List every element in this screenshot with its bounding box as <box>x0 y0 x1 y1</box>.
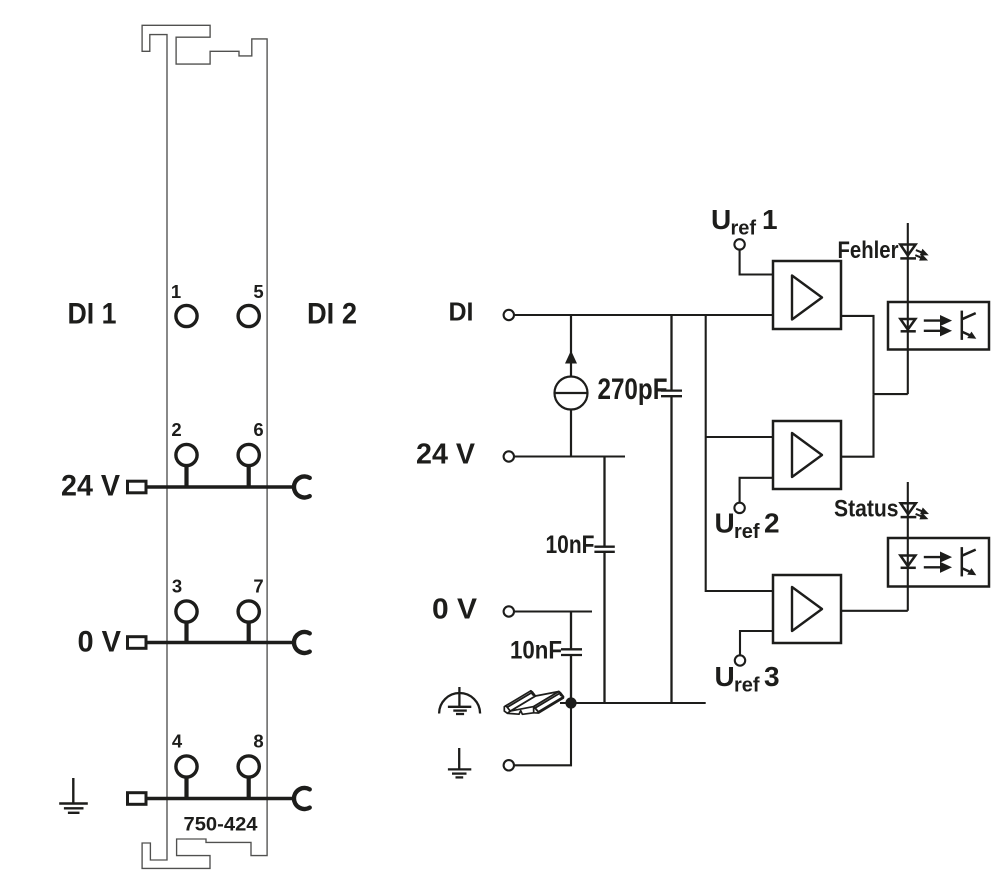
svg-text:24 V: 24 V <box>416 439 476 471</box>
svg-text:U: U <box>715 661 735 692</box>
svg-text:0 V: 0 V <box>78 626 122 659</box>
0V bus connector lug <box>128 637 147 649</box>
svg-text:24 V: 24 V <box>61 470 120 503</box>
terminal DI <box>504 310 514 320</box>
LED Status <box>901 503 917 517</box>
module outline 750-424 housing <box>142 25 267 868</box>
optocoupler 2 LED <box>900 556 915 568</box>
wire line B (DI to comparators 2,3) <box>706 315 773 591</box>
current source (circle with chord and arrow) <box>555 315 588 457</box>
optocoupler 2 coupling arrows <box>924 553 949 571</box>
svg-text:3: 3 <box>172 576 182 597</box>
terminal earth <box>504 760 514 770</box>
capacitor 270pF (on line A) <box>661 315 682 703</box>
terminal Uref3 <box>735 655 745 665</box>
24V bus hook contact <box>294 477 310 498</box>
capacitor 10nF upper (24V to ground bus) <box>594 457 614 704</box>
comparator U1 box <box>773 261 841 329</box>
earth bus hook contact <box>294 788 310 809</box>
contact 1 <box>171 281 197 327</box>
optocoupler 2 box <box>888 538 989 587</box>
label Uref 2 <box>715 508 780 544</box>
chassis/noiseless earth symbol <box>439 687 480 714</box>
svg-text:8: 8 <box>253 731 263 752</box>
wire Uref2 to comparator 2 <box>740 478 773 503</box>
ground symbol (module earth row) <box>59 778 88 813</box>
svg-text:U: U <box>715 508 735 539</box>
svg-text:2: 2 <box>171 419 181 440</box>
0V bus bar <box>145 641 296 644</box>
earth ground symbol (schematic) <box>448 748 471 777</box>
wire comparator3 output <box>841 610 908 612</box>
optocoupler 1 phototransistor <box>962 311 976 340</box>
DIN rail symbol <box>504 691 563 715</box>
contact 4 <box>172 731 197 799</box>
svg-text:270pF: 270pF <box>598 373 668 406</box>
svg-text:ref: ref <box>734 675 760 697</box>
earth bus bar <box>145 797 296 800</box>
svg-text:1: 1 <box>762 204 778 235</box>
LED Status emission arrows <box>916 509 927 519</box>
svg-text:6: 6 <box>253 419 263 440</box>
wire tap to comparator 2 <box>706 436 773 438</box>
svg-text:10nF: 10nF <box>510 637 562 665</box>
comparator U1 triangle <box>792 276 822 320</box>
earth bus connector lug <box>128 793 147 805</box>
LEFT-MODULE <box>59 25 357 868</box>
comparator U3 triangle <box>792 587 822 631</box>
capacitor 10nF lower (0V to ground bus) <box>561 612 582 704</box>
svg-text:DI 2: DI 2 <box>307 298 357 331</box>
optocoupler 1 LED line through box <box>907 302 909 350</box>
svg-text:10nF: 10nF <box>546 531 595 559</box>
24V bus bar <box>145 485 296 488</box>
svg-text:0 V: 0 V <box>432 594 478 626</box>
LED Fehler emission arrows <box>915 250 926 260</box>
terminal Uref2 <box>734 503 744 513</box>
RIGHT-SCHEMATIC <box>416 204 989 777</box>
terminal 24V <box>504 451 514 461</box>
svg-text:7: 7 <box>253 576 263 597</box>
optocoupler 1 box <box>888 302 989 350</box>
current source arrow head <box>565 351 577 364</box>
wire error node to LED chain <box>874 393 908 395</box>
optocoupler 2 LED line through box <box>907 538 909 587</box>
svg-text:4: 4 <box>172 731 183 752</box>
wire comparator2 output <box>841 394 874 457</box>
LED Fehler <box>900 245 916 259</box>
svg-text:750-424: 750-424 <box>184 815 258 836</box>
wire Uref3 to comparator 3 <box>740 631 773 655</box>
contact 7 <box>238 576 264 643</box>
contact 8 <box>238 731 264 799</box>
label Uref 3 <box>715 661 780 697</box>
contact 3 <box>172 576 197 643</box>
wire 24V line <box>514 455 625 457</box>
wire DI line <box>514 314 773 316</box>
0V bus hook contact <box>294 632 310 653</box>
svg-text:DI 1: DI 1 <box>68 298 117 331</box>
optocoupler 1 coupling arrows <box>924 317 949 335</box>
optocoupler 1 LED <box>900 319 915 331</box>
wire earth line <box>514 708 571 765</box>
svg-text:2: 2 <box>764 508 780 539</box>
wire 0V line <box>514 610 592 612</box>
contact 6 <box>238 419 264 487</box>
label Uref 1 <box>711 204 778 240</box>
svg-text:ref: ref <box>731 218 757 240</box>
terminal 0V <box>504 606 514 616</box>
comparator U2 box <box>773 421 841 489</box>
svg-text:Fehler: Fehler <box>838 237 899 264</box>
wire Fehler LED chain vertical <box>907 223 909 394</box>
svg-text:3: 3 <box>764 661 780 692</box>
terminal Uref1 <box>734 239 744 249</box>
wire Uref1 to comparator 1 <box>740 250 773 275</box>
ground bus wire <box>560 702 706 704</box>
svg-text:5: 5 <box>253 281 263 302</box>
optocoupler 2 phototransistor <box>962 547 976 576</box>
contact 5 <box>238 281 264 327</box>
svg-text:1: 1 <box>171 281 181 302</box>
svg-text:ref: ref <box>734 521 760 543</box>
svg-text:DI: DI <box>449 297 474 327</box>
comparator U2 triangle <box>792 433 822 477</box>
comparator U3 box <box>773 575 841 643</box>
svg-text:Status: Status <box>834 495 899 522</box>
contact 2 <box>171 419 197 487</box>
junction dot <box>565 697 576 708</box>
24V bus connector lug <box>128 481 147 493</box>
wire comparator1 output <box>841 316 874 394</box>
wire Status LED chain vertical <box>907 482 909 611</box>
svg-text:U: U <box>711 204 731 235</box>
